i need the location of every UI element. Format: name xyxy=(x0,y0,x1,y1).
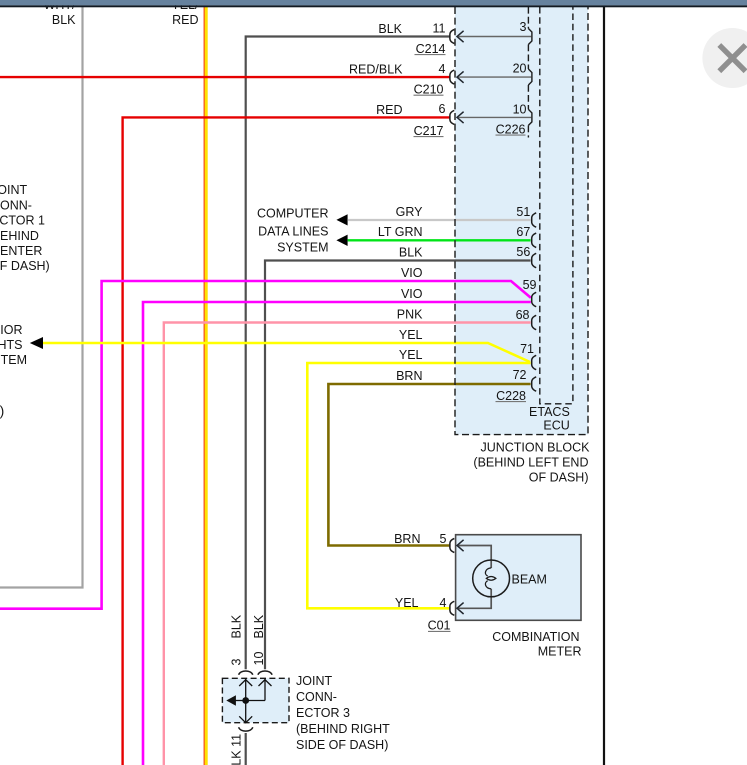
frame line right xyxy=(603,7,605,765)
connector pin 56 xyxy=(532,253,537,267)
svg-text:3: 3 xyxy=(230,659,244,666)
svg-text:LT GRN: LT GRN xyxy=(378,225,423,239)
svg-text:BRN: BRN xyxy=(394,532,420,546)
svg-text:RED: RED xyxy=(376,103,402,117)
svg-text:CONN-: CONN- xyxy=(296,690,337,704)
wire YEL 2 xyxy=(307,363,530,608)
svg-text:OF DASH): OF DASH) xyxy=(529,470,589,484)
svg-text:COMPUTER: COMPUTER xyxy=(257,206,329,220)
junction block dashed box xyxy=(455,7,588,435)
lamp BEAM xyxy=(473,560,510,597)
arrow to computer data lines (LT GRN) xyxy=(336,235,347,246)
wire WHT/BLK vertical left xyxy=(0,7,83,588)
svg-text:ECTOR 1: ECTOR 1 xyxy=(0,214,45,228)
joint connector 3 box xyxy=(222,678,289,722)
connector pin 72 xyxy=(532,377,537,391)
svg-text:11: 11 xyxy=(433,21,446,35)
svg-text:BLK: BLK xyxy=(399,245,423,259)
svg-text:C226: C226 xyxy=(496,122,526,136)
svg-text:RED: RED xyxy=(172,13,198,27)
svg-text:(BEHIND RIGHT: (BEHIND RIGHT xyxy=(296,722,390,736)
svg-text:DATA LINES: DATA LINES xyxy=(258,225,328,239)
connector pin 68 xyxy=(532,315,537,329)
jc3 junction dot xyxy=(242,697,249,704)
connector arc right (top) xyxy=(258,671,272,675)
wire YEL/RED vertical xyxy=(203,7,205,765)
wire BLK 11 out xyxy=(245,733,247,765)
svg-text:CENTER: CENTER xyxy=(0,244,42,258)
svg-text:72: 72 xyxy=(513,368,527,382)
svg-text:JUNCTION BLOCK: JUNCTION BLOCK xyxy=(480,440,590,454)
connector C210 xyxy=(450,70,454,84)
svg-text:OF DASH): OF DASH) xyxy=(0,259,50,273)
jb internal wire row1 xyxy=(458,36,532,38)
wire VIO 1 xyxy=(0,281,531,609)
close button xyxy=(702,28,747,88)
svg-text:SIDE OF DASH): SIDE OF DASH) xyxy=(296,738,388,752)
junction block fill xyxy=(455,7,588,435)
top bar xyxy=(0,0,747,5)
svg-text:ECU: ECU xyxy=(543,419,569,433)
svg-text:METER: METER xyxy=(538,645,582,659)
jc3 left arrow xyxy=(235,700,246,702)
ETACS ECU dashed box xyxy=(540,7,573,404)
connector meter pin4 (C01) xyxy=(450,601,454,615)
svg-text:YEL: YEL xyxy=(395,596,419,610)
connector pin 67 xyxy=(532,233,537,247)
wire VIO 2 xyxy=(143,302,531,765)
arrow to interior lights system xyxy=(30,337,43,349)
wire LT GRN xyxy=(348,239,531,241)
svg-text:6: 6 xyxy=(439,102,446,116)
svg-text:C214: C214 xyxy=(416,42,446,56)
svg-text:ECTOR 3: ECTOR 3 xyxy=(296,706,350,720)
svg-text:4: 4 xyxy=(439,62,446,76)
svg-text:C01: C01 xyxy=(428,619,451,633)
wire BLK pin56 xyxy=(265,261,531,670)
wire RED/BLK row2 xyxy=(0,76,450,78)
svg-text:3: 3 xyxy=(520,20,527,34)
svg-text:10: 10 xyxy=(513,102,527,116)
jb internal wire row2 xyxy=(458,76,532,78)
svg-text:C228: C228 xyxy=(496,389,526,403)
wire BLK row1 to C214 xyxy=(246,37,450,670)
wire GRY xyxy=(348,219,531,221)
meter internal wire bottom xyxy=(458,589,492,608)
svg-text:INTERIOR: INTERIOR xyxy=(0,323,23,337)
svg-text:LIGHTS: LIGHTS xyxy=(0,338,23,352)
svg-text:JOINT: JOINT xyxy=(0,183,27,197)
jb internal wire row3 xyxy=(458,116,532,118)
jc3 down wire xyxy=(245,701,247,723)
svg-text:C210: C210 xyxy=(414,82,444,96)
svg-text:JOINT: JOINT xyxy=(296,674,332,688)
jc3 internal wires xyxy=(245,678,247,700)
svg-text:SYSTEM: SYSTEM xyxy=(0,353,27,367)
svg-text:59: 59 xyxy=(523,278,537,292)
svg-text:BLK 11: BLK 11 xyxy=(230,734,244,765)
svg-text:BLK: BLK xyxy=(230,614,244,638)
svg-text:VIO: VIO xyxy=(401,287,423,301)
svg-text:67: 67 xyxy=(516,225,530,239)
connector pin 59 xyxy=(532,292,537,306)
svg-text:CONN-: CONN- xyxy=(0,198,32,212)
svg-text:SYSTEM: SYSTEM xyxy=(277,240,328,254)
combination meter box xyxy=(456,535,581,621)
svg-text:BLK: BLK xyxy=(378,22,402,36)
svg-text:C217: C217 xyxy=(414,124,444,138)
svg-text:(BEHIND: (BEHIND xyxy=(0,229,39,243)
connector pin 71 xyxy=(532,355,537,369)
svg-text:ETACS: ETACS xyxy=(529,405,570,419)
svg-text:BRN: BRN xyxy=(396,369,422,383)
svg-text:COMBINATION: COMBINATION xyxy=(492,630,579,644)
pin 10 brace xyxy=(528,109,532,125)
svg-text:51: 51 xyxy=(516,205,530,219)
arrow to computer data lines (GRY) xyxy=(336,214,347,225)
wire RED row3 xyxy=(123,117,450,765)
pin 20 brace xyxy=(528,69,532,85)
svg-text:BEAM: BEAM xyxy=(512,572,547,586)
svg-text:GRY: GRY xyxy=(396,205,424,219)
meter internal wire top xyxy=(458,546,492,569)
svg-text:YEL: YEL xyxy=(399,348,423,362)
connector C214 xyxy=(450,30,454,44)
svg-text:YEL: YEL xyxy=(399,328,423,342)
svg-text:71: 71 xyxy=(520,342,534,356)
wire PNK xyxy=(164,323,531,765)
svg-text:68: 68 xyxy=(516,308,530,322)
connector pin 51 xyxy=(532,213,537,227)
svg-text:4: 4 xyxy=(440,596,447,610)
wire BRN xyxy=(328,384,530,546)
pin 3 brace xyxy=(528,29,532,45)
svg-text:RED/BLK: RED/BLK xyxy=(349,63,403,77)
svg-text:VIO: VIO xyxy=(401,266,423,280)
svg-text:0): 0) xyxy=(0,403,4,419)
svg-text:5: 5 xyxy=(440,532,447,546)
connector meter pin5 xyxy=(450,539,454,553)
svg-text:10: 10 xyxy=(252,652,266,666)
svg-text:(BEHIND LEFT END: (BEHIND LEFT END xyxy=(473,455,588,469)
connector arc bottom xyxy=(239,727,253,731)
svg-text:PNK: PNK xyxy=(397,307,423,321)
svg-text:BLK: BLK xyxy=(252,614,266,638)
wire YEL 1 xyxy=(43,343,530,362)
svg-text:20: 20 xyxy=(513,61,527,75)
svg-text:BLK: BLK xyxy=(52,13,76,27)
connector C217 xyxy=(450,110,454,124)
connector arc left (top) xyxy=(239,671,253,675)
svg-text:56: 56 xyxy=(516,245,530,259)
